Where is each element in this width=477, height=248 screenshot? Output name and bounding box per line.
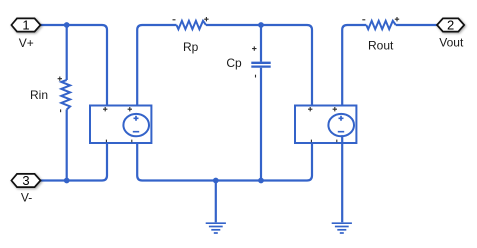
U1 pin - (bottom-left): [105, 140, 107, 143]
port 3 (V-): [11, 174, 40, 187]
ground G2: [332, 223, 352, 233]
svg-text:Vout: Vout: [439, 35, 464, 49]
wire net V- : port3 right, corner up to U1 bottom-left: [41, 143, 108, 181]
wire Rin branch vertical lower: [66, 110, 68, 181]
svg-text:Cp: Cp: [226, 56, 242, 70]
junction Rin bottom node: [64, 178, 70, 184]
U2 pin + (top-left): [308, 107, 312, 111]
junction top-left node: [64, 22, 70, 28]
polarity - of Rout: [362, 19, 365, 21]
wire Rp right to corner down: [206, 25, 312, 106]
controlled source U2 body: [295, 106, 356, 144]
wire Rout to port 2: [396, 24, 437, 26]
U2 pin + (top-right): [333, 107, 337, 111]
U1 pin + (top-left): [103, 107, 107, 111]
svg-text:Rout: Rout: [368, 38, 394, 52]
polarity + of Rp: [204, 17, 208, 21]
svg-text:Rin: Rin: [30, 88, 48, 102]
U1 pin - (bottom-right): [131, 140, 133, 143]
polarity - of Rp: [173, 19, 176, 21]
port 2 (Vout): [437, 18, 464, 31]
svg-text:1: 1: [22, 18, 29, 33]
wire Cp upper branch: [260, 25, 262, 62]
polarity - of Cp: [255, 75, 257, 78]
polarity + of Rout: [395, 17, 399, 21]
resistor Rout zigzag: [366, 21, 396, 29]
resistor Rp zigzag: [177, 21, 207, 29]
svg-text:3: 3: [22, 173, 29, 188]
junction Cp bottom node: [258, 178, 264, 184]
junction Cp top node: [258, 22, 264, 28]
ground G1: [206, 223, 226, 233]
U1 pin + (top-right): [128, 107, 132, 111]
wire net V+ : port1 to corner, down to U1 left input: [41, 25, 108, 106]
polarity - of Rin: [60, 109, 62, 112]
U2 pin - (bottom-left): [310, 140, 312, 143]
U2 pin - (bottom-right): [336, 140, 338, 143]
junction ground node: [213, 178, 219, 184]
controlled source U1 body: [90, 106, 151, 144]
resistor Rin zigzag: [61, 80, 70, 110]
svg-text:V-: V-: [21, 191, 32, 205]
wire ground 1 stem: [215, 181, 217, 223]
wire U2 source bottom to ground 2: [341, 135, 343, 222]
capacitor Cp plates: [251, 63, 270, 67]
polarity + of Rin: [58, 77, 62, 81]
wire bottom rail: U1 source bottom to U2 bottom-left input: [137, 135, 312, 180]
wire net U1 output top: U1 right terminal up, right through Rp to corner down to U2 left input: [137, 25, 176, 116]
svg-text:V+: V+: [19, 36, 34, 50]
port 1 (V+): [11, 18, 40, 31]
polarity + of Cp: [252, 46, 256, 50]
wire net Vout: U2 source up, right through Rout to port2: [342, 25, 366, 116]
svg-text:Rp: Rp: [183, 40, 199, 54]
svg-text:2: 2: [447, 18, 454, 33]
wire Cp lower branch: [260, 68, 262, 181]
wire Rin branch vertical upper: [66, 25, 68, 80]
